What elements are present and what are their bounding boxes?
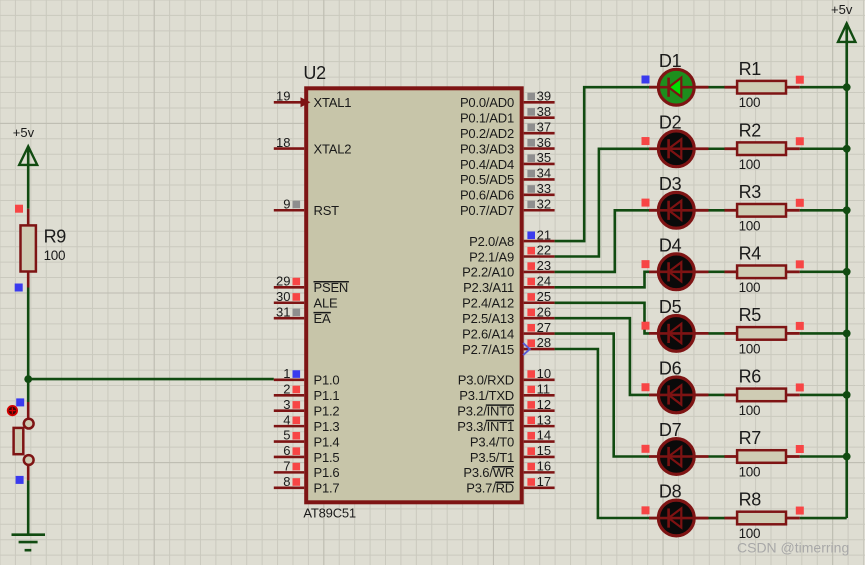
svg-text:P0.5/AD5: P0.5/AD5: [460, 172, 514, 187]
svg-text:P0.1/AD1: P0.1/AD1: [460, 111, 514, 126]
wire D5 to R5: [709, 332, 726, 335]
voltage marker at pin 28: [523, 343, 530, 355]
svg-text:D2: D2: [659, 112, 682, 132]
svg-text:9: 9: [283, 196, 290, 211]
pin 15 P3.5/T1 (U2 right): [470, 443, 555, 465]
pin 32 P0.7/AD7 (U2 right): [460, 196, 555, 218]
svg-text:P2.4/A12: P2.4/A12: [462, 296, 514, 311]
svg-text:27: 27: [537, 320, 551, 335]
wire R4 to +5v rail: [800, 271, 847, 274]
svg-text:12: 12: [537, 397, 551, 412]
svg-text:P2.2/A10: P2.2/A10: [462, 265, 514, 280]
svg-text:11: 11: [537, 382, 551, 397]
pin 37 P0.2/AD2 (U2 right): [460, 119, 555, 141]
svg-text:2: 2: [283, 382, 290, 397]
svg-text:P2.0/A8: P2.0/A8: [469, 234, 514, 249]
logic state indicator R1 right (red): [796, 76, 804, 84]
svg-text:CSDN @timerring: CSDN @timerring: [737, 539, 849, 555]
resistor R2: [725, 120, 800, 171]
svg-text:P2.6/A14: P2.6/A14: [462, 326, 514, 341]
wire R6 to +5v rail: [800, 394, 847, 397]
svg-text:P0.0/AD0: P0.0/AD0: [460, 95, 514, 110]
svg-text:+5v: +5v: [13, 125, 35, 140]
svg-text:RST: RST: [314, 203, 340, 218]
wire P2.5 to D6: [555, 318, 650, 395]
wire R3 to +5v rail: [800, 209, 847, 212]
pin 10 P3.0/RXD (U2 right): [458, 366, 555, 388]
wire P2.2 to D3: [555, 210, 650, 272]
svg-text:4: 4: [283, 412, 290, 427]
op IC U2 body: [303, 63, 521, 520]
svg-text:R7: R7: [739, 428, 762, 448]
svg-text:P2.5/A13: P2.5/A13: [462, 311, 514, 326]
svg-text:100: 100: [739, 403, 761, 418]
logic state indicator R3 right (red): [796, 199, 804, 207]
logic state indicator D4 anode (red): [642, 260, 650, 268]
pin 39 P0.0/AD0 (U2 right): [460, 89, 555, 111]
power +5v (right): [831, 2, 855, 42]
LED D3: [649, 174, 709, 228]
svg-text:P3.5/T1: P3.5/T1: [470, 450, 514, 465]
svg-text:38: 38: [537, 104, 551, 119]
resistor R7: [725, 428, 800, 479]
pin 21 P2.0/A8 (U2 right): [469, 227, 554, 249]
wire R1 to +5v rail: [800, 86, 847, 89]
pin 29 PSEN (U2 left): [274, 274, 349, 296]
logic state indicator D1 anode (blue): [642, 76, 650, 84]
svg-text:33: 33: [537, 181, 551, 196]
wire P2.7 to D8: [555, 349, 650, 518]
svg-text:U2: U2: [303, 63, 326, 83]
svg-text:P2.1/A9: P2.1/A9: [469, 249, 514, 264]
pin 1 P1.0 (U2 left): [274, 366, 340, 388]
pin 19 XTAL1 (U2 left): [274, 89, 351, 111]
wire node A to P1.0 pin 1: [28, 378, 274, 381]
svg-text:XTAL1: XTAL1: [314, 95, 352, 110]
pin 24 P2.3/A11 (U2 right): [463, 274, 555, 296]
logic state indicator D5 anode (red): [642, 322, 650, 330]
svg-text:36: 36: [537, 135, 551, 150]
logic state indicator R2 right (red): [796, 137, 804, 145]
logic state indicator R4 right (red): [796, 260, 804, 268]
svg-text:AT89C51: AT89C51: [303, 506, 356, 521]
wire D6 to R6: [709, 394, 726, 397]
pin 33 P0.6/AD6 (U2 right): [460, 181, 555, 203]
svg-text:P1.4: P1.4: [314, 434, 340, 449]
svg-text:P0.3/AD3: P0.3/AD3: [460, 141, 514, 156]
wire node A to button: [27, 379, 30, 402]
svg-text:7: 7: [283, 459, 290, 474]
svg-text:35: 35: [537, 150, 551, 165]
wire R7 to +5v rail: [800, 455, 847, 458]
svg-text:18: 18: [276, 135, 290, 150]
svg-text:P3.1/TXD: P3.1/TXD: [459, 388, 514, 403]
push button (switch): [14, 402, 34, 480]
svg-text:32: 32: [537, 196, 551, 211]
svg-text:P1.2: P1.2: [314, 404, 340, 419]
LED D1: [649, 51, 709, 105]
power +5v (left): [13, 125, 37, 209]
svg-text:100: 100: [44, 248, 66, 263]
svg-text:19: 19: [276, 89, 290, 104]
svg-text:39: 39: [537, 89, 551, 104]
svg-text:5: 5: [283, 428, 290, 443]
svg-text:100: 100: [739, 280, 761, 295]
svg-text:100: 100: [739, 95, 761, 110]
svg-text:29: 29: [276, 274, 290, 289]
svg-text:P1.6: P1.6: [314, 465, 340, 480]
svg-text:P2.3/A11: P2.3/A11: [463, 280, 514, 295]
logic state indicator D3 anode (red): [642, 199, 650, 207]
pin 38 P0.1/AD1 (U2 right): [460, 104, 555, 126]
pin 25 P2.4/A12 (U2 right): [462, 289, 554, 311]
svg-text:15: 15: [537, 443, 551, 458]
logic state indicator R7 right (red): [796, 445, 804, 453]
logic state indicator R5 right (red): [796, 322, 804, 330]
resistor R8: [725, 490, 800, 541]
pin 30 ALE (U2 left): [274, 289, 338, 311]
pin 7 P1.6 (U2 left): [274, 459, 340, 481]
svg-text:R3: R3: [739, 182, 762, 202]
svg-text:P1.1: P1.1: [314, 388, 340, 403]
svg-text:25: 25: [537, 289, 551, 304]
logic state indicator R8 right (red): [796, 507, 804, 515]
resistor R9: [21, 209, 67, 288]
logic state indicator R9 top (red): [15, 205, 23, 213]
pin 2 P1.1 (U2 left): [274, 382, 340, 404]
junction rail R5: [843, 330, 851, 338]
wire +5v rail vertical: [845, 23, 848, 518]
LED D4: [649, 235, 709, 289]
svg-text:R1: R1: [739, 59, 762, 79]
wire R2 to +5v rail: [800, 147, 847, 150]
pin 17 P3.7/RD (U2 right): [466, 474, 554, 496]
svg-text:28: 28: [537, 335, 551, 350]
svg-text:ALE: ALE: [314, 296, 339, 311]
pin 8 P1.7 (U2 left): [274, 474, 340, 496]
svg-text:34: 34: [537, 166, 551, 181]
svg-text:13: 13: [537, 412, 551, 427]
ground: [12, 535, 46, 551]
wire P2.6 to D7: [555, 334, 650, 457]
svg-text:R5: R5: [739, 305, 762, 325]
pin 6 P1.5 (U2 left): [274, 443, 340, 465]
pin 5 P1.4 (U2 left): [274, 428, 340, 450]
svg-text:P3.0/RXD: P3.0/RXD: [458, 373, 514, 388]
pin 4 P1.3 (U2 left): [274, 412, 340, 434]
svg-text:100: 100: [739, 341, 761, 356]
junction rail R1: [843, 83, 851, 91]
resistor R1: [725, 59, 800, 110]
pin 22 P2.1/A9 (U2 right): [469, 243, 554, 265]
svg-text:+5v: +5v: [831, 2, 853, 17]
pin 13 P3.3/INT1 (U2 right): [457, 412, 554, 434]
LED D6: [649, 359, 709, 413]
svg-text:XTAL2: XTAL2: [314, 141, 352, 156]
resistor R6: [725, 367, 800, 418]
svg-text:100: 100: [739, 218, 761, 233]
wire R8 to +5v rail: [800, 517, 847, 520]
node A junction: [24, 375, 32, 383]
svg-text:P1.7: P1.7: [314, 481, 340, 496]
wire P2.0 to D1: [555, 87, 650, 241]
svg-text:8: 8: [283, 474, 290, 489]
svg-text:1: 1: [283, 366, 290, 381]
logic state indicator D7 anode (red): [642, 445, 650, 453]
svg-text:31: 31: [276, 304, 290, 319]
svg-text:R6: R6: [739, 367, 762, 387]
wire D2 to R2: [709, 147, 726, 150]
pin 28 P2.7/A15 (U2 right): [462, 335, 554, 357]
svg-text:10: 10: [537, 366, 551, 381]
logic state indicator button bottom (blue): [16, 476, 24, 484]
svg-text:37: 37: [537, 119, 551, 134]
junction rail R7: [843, 453, 851, 461]
junction rail R6: [843, 391, 851, 399]
wire button to ground: [27, 480, 30, 534]
svg-text:P1.5: P1.5: [314, 450, 340, 465]
svg-text:23: 23: [537, 258, 551, 273]
LED D5: [649, 297, 709, 351]
svg-text:P0.6/AD6: P0.6/AD6: [460, 188, 514, 203]
LED D7: [649, 420, 709, 474]
LED D8: [649, 482, 709, 536]
wire R9 to node A: [27, 288, 30, 380]
pin 26 P2.5/A13 (U2 right): [462, 304, 554, 326]
logic state indicator D6 anode (red): [642, 383, 650, 391]
pin 9 RST (U2 left): [274, 196, 339, 218]
wire D8 to R8: [709, 517, 726, 520]
resistor R3: [725, 182, 800, 233]
pin 35 P0.4/AD4 (U2 right): [460, 150, 555, 172]
pin 14 P3.4/T0 (U2 right): [470, 428, 555, 450]
wire P2.4 to D5: [555, 303, 650, 334]
watermark: [737, 539, 849, 555]
svg-text:P1.3: P1.3: [314, 419, 340, 434]
svg-text:P1.0: P1.0: [314, 373, 340, 388]
pin 27 P2.6/A14 (U2 right): [462, 320, 554, 342]
svg-text:21: 21: [537, 227, 551, 242]
svg-text:26: 26: [537, 304, 551, 319]
LED D2: [649, 112, 709, 166]
pin 3 P1.2 (U2 left): [274, 397, 340, 419]
logic state indicator button top (blue): [16, 398, 24, 406]
wire D3 to R3: [709, 209, 726, 212]
wire P2.1 to D2: [555, 149, 650, 257]
svg-text:16: 16: [537, 459, 551, 474]
wire D1 to R1: [709, 86, 726, 89]
pin 34 P0.5/AD5 (U2 right): [460, 166, 555, 188]
svg-text:14: 14: [537, 428, 551, 443]
svg-text:17: 17: [537, 474, 551, 489]
wire D7 to R7: [709, 455, 726, 458]
resistor R4: [725, 244, 800, 295]
pin 36 P0.3/AD3 (U2 right): [460, 135, 555, 157]
svg-text:3: 3: [283, 397, 290, 412]
svg-text:R4: R4: [739, 244, 762, 264]
svg-text:R2: R2: [739, 120, 762, 140]
pin 18 XTAL2 (U2 left): [274, 135, 351, 157]
svg-text:R8: R8: [739, 490, 762, 510]
pin 12 P3.2/INT0 (U2 right): [457, 397, 554, 419]
logic state indicator D2 anode (red): [642, 137, 650, 145]
resistor R5: [725, 305, 800, 356]
wire D4 to R4: [709, 271, 726, 274]
svg-text:P0.7/AD7: P0.7/AD7: [460, 203, 514, 218]
pin 31 EA (U2 left): [274, 304, 331, 326]
logic state indicator R6 right (red): [796, 383, 804, 391]
svg-text:P0.4/AD4: P0.4/AD4: [460, 157, 514, 172]
svg-text:R9: R9: [44, 227, 67, 247]
pin 11 P3.1/TXD (U2 right): [459, 382, 554, 404]
svg-text:100: 100: [739, 157, 761, 172]
wire P2.3 to D4: [555, 272, 650, 288]
logic state indicator R9 bottom (blue): [15, 284, 23, 292]
svg-text:6: 6: [283, 443, 290, 458]
svg-text:100: 100: [739, 465, 761, 480]
svg-text:22: 22: [537, 243, 551, 258]
svg-text:P3.4/T0: P3.4/T0: [470, 434, 514, 449]
pin 23 P2.2/A10 (U2 right): [462, 258, 554, 280]
junction rail R4: [843, 268, 851, 276]
push button actuator: [8, 406, 17, 415]
svg-text:24: 24: [537, 274, 551, 289]
svg-text:P0.2/AD2: P0.2/AD2: [460, 126, 514, 141]
junction rail R3: [843, 206, 851, 214]
logic state indicator D8 anode (red): [642, 506, 650, 514]
svg-text:P2.7/A15: P2.7/A15: [462, 342, 514, 357]
junction rail R2: [843, 145, 851, 153]
wire R5 to +5v rail: [800, 332, 847, 335]
svg-text:30: 30: [276, 289, 290, 304]
pin 16 P3.6/WR (U2 right): [463, 459, 554, 481]
